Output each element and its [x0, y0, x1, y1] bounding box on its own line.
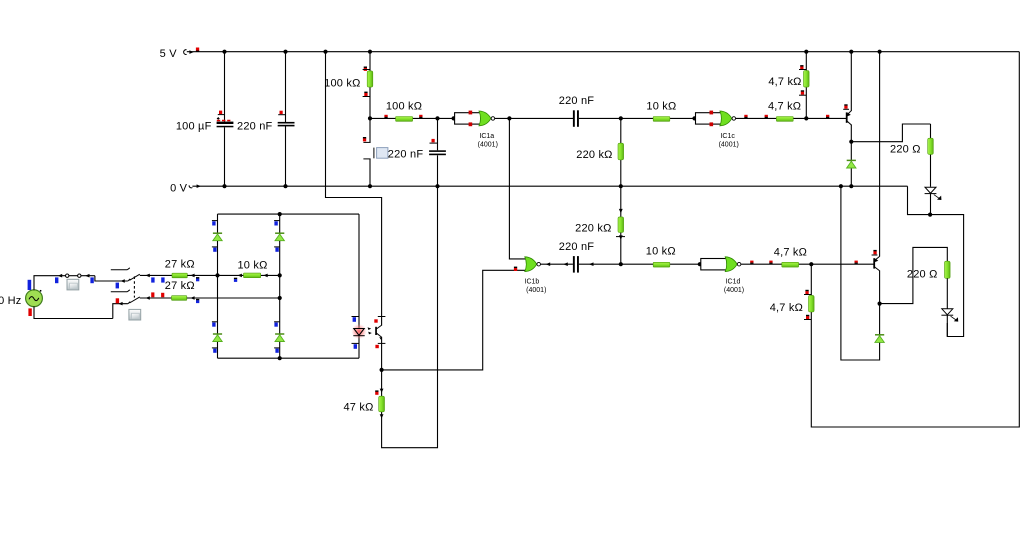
- resistor R4 10k row1: [646, 101, 676, 122]
- LED U2a optocoupler emitter red: [351, 214, 366, 358]
- switch S3b changeover lower: [111, 276, 172, 320]
- transistor U2b optocoupler photo NPN: [368, 317, 386, 370]
- wire feedback IC1a out to IC1b input: [509, 118, 526, 259]
- svg-text:IC1b: IC1b: [525, 279, 540, 286]
- svg-text:0 V: 0 V: [170, 183, 188, 195]
- svg-text:220 kΩ: 220 kΩ: [575, 222, 611, 234]
- wire bridge top rail: [218, 212, 360, 216]
- diode D8 bridge middle lower: [274, 322, 284, 358]
- svg-text:(4001): (4001): [526, 287, 546, 294]
- svg-text:4,7 kΩ: 4,7 kΩ: [768, 101, 801, 113]
- svg-text:4,7 kΩ: 4,7 kΩ: [770, 302, 803, 314]
- wire source bottom return: [34, 306, 113, 318]
- resistor R1 100k vertical: [324, 50, 373, 119]
- LED LED1 indicator: [925, 187, 941, 214]
- node bridge left / upper row junction: [215, 241, 219, 333]
- svg-text:IC1a: IC1a: [479, 133, 494, 140]
- svg-text:10 kΩ: 10 kΩ: [237, 259, 267, 271]
- resistor R16 220R LED2: [907, 261, 950, 309]
- svg-text:220 nF: 220 nF: [237, 121, 273, 133]
- node Q1 emitter junction: [849, 140, 853, 144]
- wire 0V extension to LED returns: [908, 186, 964, 336]
- svg-text:220 Ω: 220 Ω: [907, 268, 938, 280]
- svg-text:27 kΩ: 27 kΩ: [165, 259, 195, 271]
- op-amp gate U1b NOR IC1b (4001): [514, 257, 547, 294]
- resistor R9 27k lower: [165, 280, 280, 303]
- switch S2 push-to-make to 0V: [363, 118, 388, 188]
- svg-text:220 Ω: 220 Ω: [890, 144, 921, 156]
- wire right edge loop 5V to lower pull-up: [811, 52, 1019, 427]
- svg-text:220 nF: 220 nF: [388, 148, 424, 160]
- node 0V supply terminal: [170, 183, 201, 195]
- svg-text:(4001): (4001): [478, 141, 498, 148]
- resistor R12 220k row2 to 0V: [575, 186, 625, 266]
- wire Q1 emitter to 220R: [851, 124, 930, 142]
- LED LED2 indicator: [941, 309, 957, 337]
- wire IC1d output to Q2 base: [741, 261, 874, 265]
- diode D6 bridge middle upper: [274, 214, 284, 252]
- transistor Q2 NPN: [872, 250, 880, 304]
- node 0V junction D4 return: [839, 184, 843, 188]
- diode D5 bridge left upper: [212, 214, 222, 252]
- svg-text:47 kΩ: 47 kΩ: [343, 401, 373, 413]
- switch S1 closed with button: [55, 274, 95, 290]
- node optocoupler emitter junction: [380, 368, 384, 372]
- svg-text:220 kΩ: 220 kΩ: [576, 149, 612, 161]
- resistor R2 100k horizontal: [370, 101, 454, 122]
- resistor R8 27k upper: [165, 259, 218, 282]
- wire 5V to Q2 collector: [878, 50, 882, 257]
- resistor R13 10k row2: [646, 245, 676, 267]
- resistor R7 220R LED1: [890, 124, 933, 187]
- resistor R14 4.7k series row2: [774, 247, 807, 267]
- node bridge middle junctions: [278, 241, 282, 333]
- svg-text:4,7 kΩ: 4,7 kΩ: [774, 247, 807, 259]
- diode D7 bridge left lower: [212, 322, 222, 358]
- wire 0V rail: [192, 185, 907, 187]
- switch S3a changeover upper: [111, 268, 172, 283]
- resistor R10 10k bridge middle row: [218, 259, 280, 282]
- resistor R5 4.7k series row1: [768, 101, 801, 122]
- wire bridge bottom rail: [218, 356, 360, 360]
- diode D2 green at Q1 emitter: [847, 142, 856, 189]
- svg-text:10 kΩ: 10 kΩ: [646, 245, 676, 257]
- wire 0V to 47k bottom return: [382, 186, 438, 448]
- svg-text:(4001): (4001): [724, 287, 744, 294]
- wire 5V rail: [187, 51, 1020, 53]
- wire to changeover pole upper: [95, 276, 128, 289]
- capacitor C4 220nF series row1: [559, 95, 695, 127]
- source V1 50Hz AC: [0, 280, 42, 316]
- wire Q2 emitter to 220R lower: [880, 247, 948, 303]
- svg-text:27 kΩ: 27 kΩ: [165, 280, 195, 292]
- svg-text:100 µF: 100 µF: [176, 121, 212, 133]
- op-amp gate U1a NOR IC1a (4001) inputs tied: [452, 111, 498, 149]
- svg-text:IC1d: IC1d: [726, 279, 741, 286]
- capacitor C5 220nF series row2: [541, 241, 700, 272]
- node junction R1/R2/switch: [368, 116, 372, 120]
- resistor R6 4.7k pullup vertical: [768, 50, 809, 121]
- svg-text:100 kΩ: 100 kΩ: [386, 101, 422, 113]
- transistor Q1 NPN: [843, 50, 853, 142]
- resistor R15 4.7k pull-up row2 vertical: [770, 262, 814, 319]
- svg-text:50 Hz: 50 Hz: [0, 295, 22, 307]
- svg-text:220 nF: 220 nF: [559, 95, 595, 107]
- op-amp gate U1d NOR IC1d (4001) inputs tied: [698, 257, 744, 294]
- op-amp gate U1c NOR IC1c (4001) inputs tied: [692, 111, 738, 149]
- svg-text:IC1c: IC1c: [720, 133, 735, 140]
- node Q2 emitter junction: [878, 302, 882, 306]
- capacitor C2 220nF decoupling: [237, 50, 295, 189]
- wire IC1c output to Q1 base: [736, 115, 846, 119]
- svg-text:(4001): (4001): [719, 141, 739, 148]
- wire source top to switch S1: [34, 276, 62, 291]
- wire IC1a output node: [495, 116, 573, 120]
- wire D4 return to 0V: [841, 186, 880, 360]
- resistor R3 220k to 0V: [576, 116, 623, 188]
- svg-text:5 V: 5 V: [160, 48, 178, 60]
- capacitor C1 100uF: [176, 50, 234, 189]
- svg-text:220 nF: 220 nF: [559, 241, 595, 253]
- diode D4 green at Q2 emitter: [875, 304, 884, 344]
- wire opto emitter to IC1b input: [382, 270, 527, 370]
- svg-text:100 kΩ: 100 kΩ: [324, 77, 360, 89]
- svg-text:4,7 kΩ: 4,7 kΩ: [768, 76, 801, 88]
- wire 5V feed to optocoupler collector: [323, 50, 381, 326]
- capacitor C3 220nF at switch node: [388, 116, 446, 188]
- svg-text:10 kΩ: 10 kΩ: [646, 101, 676, 113]
- resistor R11 47k pulldown: [343, 370, 384, 419]
- node 5V supply terminal: [160, 48, 200, 60]
